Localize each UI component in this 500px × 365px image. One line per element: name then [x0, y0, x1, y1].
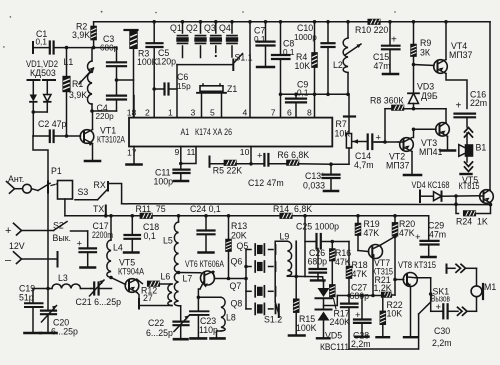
svg-text:100K: 100K	[296, 323, 317, 333]
svg-text:МП37: МП37	[449, 50, 473, 60]
svg-text:51p: 51p	[19, 293, 34, 303]
svg-text:6...25p: 6...25p	[146, 328, 173, 338]
transistor VT5 output	[480, 190, 494, 204]
svg-text:М1: М1	[484, 282, 496, 292]
wire VT7 emitter row	[337, 295, 382, 297]
svg-text:6...25p: 6...25p	[51, 327, 78, 337]
svg-text:L9: L9	[280, 232, 290, 242]
svg-text:Q1: Q1	[170, 23, 182, 33]
svg-text:680p: 680p	[100, 44, 119, 53]
capacitor C15	[373, 20, 400, 74]
svg-text:ТХ: ТХ	[93, 204, 104, 214]
svg-text:VD3: VD3	[417, 82, 434, 92]
inductor L9	[275, 232, 322, 303]
node dot VT4 base tap	[412, 63, 416, 67]
svg-text:11: 11	[187, 147, 196, 157]
svg-text:R10 220: R10 220	[355, 25, 388, 35]
resistor R4	[295, 20, 318, 118]
capacitor C9	[286, 80, 309, 118]
svg-text:VD5: VD5	[325, 331, 342, 341]
wire VD4 node to line204	[455, 196, 457, 204]
svg-text:110p: 110p	[199, 325, 218, 335]
svg-text:0,1: 0,1	[144, 231, 156, 241]
svg-text:КТ3102А: КТ3102А	[97, 135, 125, 145]
svg-text:R24 1K: R24 1K	[456, 217, 488, 227]
node dot C3C4 mid tap	[115, 78, 119, 82]
svg-text:C8: C8	[283, 39, 294, 49]
wire pin7 stub	[280, 94, 282, 117]
capacitor C18	[124, 216, 159, 253]
node dot C18 top	[131, 214, 135, 218]
inductor L7	[174, 273, 192, 321]
svg-text:МП41: МП41	[419, 147, 443, 157]
capacitor C17	[77, 221, 114, 268]
inductor L2 variable	[333, 20, 361, 94]
svg-text:47m: 47m	[374, 61, 391, 71]
IC A1 K174XA26	[129, 118, 332, 147]
transistor VT5 driver	[111, 258, 144, 306]
node dot C13 tap	[329, 162, 333, 166]
diode VD2	[32, 80, 56, 114]
svg-text:R14 6,8K: R14 6,8K	[273, 204, 312, 214]
svg-text:Q5: Q5	[237, 241, 249, 251]
svg-text:Q8: Q8	[231, 299, 243, 309]
resistor R3	[125, 30, 158, 118]
transistor VT6	[179, 259, 225, 289]
svg-text:C22: C22	[148, 318, 164, 328]
node dot VT6 base tap	[177, 271, 181, 275]
svg-text:L5: L5	[163, 236, 173, 246]
capacitor C24	[190, 204, 221, 253]
inductor L3	[46, 273, 91, 290]
capacitor C3	[100, 34, 126, 66]
wire VD5 mid tap	[324, 296, 338, 306]
capacitor C20 variable	[40, 289, 78, 337]
svg-text:+: +	[456, 101, 462, 112]
svg-text:0,1: 0,1	[36, 38, 48, 47]
svg-text:100p: 100p	[154, 177, 174, 187]
wire L1 bottom to C4 bottom	[92, 110, 117, 112]
svg-text:680p: 680p	[350, 291, 370, 301]
wire VT6 emitter	[198, 289, 200, 297]
svg-text:КД503: КД503	[30, 68, 56, 78]
pin 11 stub	[181, 147, 196, 164]
supply plus input	[5, 223, 54, 237]
transistor VT4	[414, 20, 473, 109]
speaker B1	[459, 143, 487, 157]
svg-text:47K: 47K	[352, 269, 368, 279]
resistor R5	[210, 157, 252, 176]
svg-text:3,9K: 3,9K	[72, 30, 90, 40]
wire bottom feedback	[349, 348, 418, 350]
svg-text:10: 10	[240, 147, 250, 157]
svg-text:3,9K: 3,9K	[69, 90, 87, 100]
resistor R21	[374, 275, 397, 297]
svg-text:120p: 120p	[157, 57, 177, 67]
svg-text:2: 2	[145, 108, 150, 118]
wire audio line y204	[122, 203, 491, 206]
svg-text:L4: L4	[113, 243, 123, 253]
svg-text:1: 1	[168, 108, 173, 118]
switch RX TX	[75, 180, 122, 216]
relay coil S3	[58, 181, 89, 200]
svg-text:2200m: 2200m	[92, 230, 113, 240]
svg-text:Q7: Q7	[230, 281, 242, 291]
pin stubs top	[133, 96, 135, 118]
svg-text:A1 К174 ХА 26: A1 К174 ХА 26	[181, 127, 233, 137]
quartz Q3	[204, 20, 222, 57]
svg-text:КВС111: КВС111	[320, 342, 349, 352]
switch SK1	[419, 278, 451, 349]
svg-text:C6: C6	[177, 72, 188, 82]
quartz Q5	[237, 241, 276, 255]
svg-text:18: 18	[127, 108, 137, 118]
svg-text:20K: 20K	[231, 231, 247, 241]
capacitor C14	[354, 133, 398, 171]
svg-text:R8 360К: R8 360К	[370, 96, 404, 106]
svg-text:RX: RX	[94, 180, 106, 190]
supply minus input	[5, 252, 58, 267]
svg-text:Р1: Р1	[51, 166, 62, 176]
svg-text:R7: R7	[336, 119, 347, 129]
capacitor C19	[19, 284, 48, 334]
svg-text:S1.2: S1.2	[264, 315, 282, 325]
svg-text:C24 0,1: C24 0,1	[190, 204, 221, 214]
svg-text:+: +	[391, 35, 397, 46]
svg-text:S3: S3	[78, 187, 89, 197]
svg-text:Q3: Q3	[204, 23, 216, 33]
svg-text:C30: C30	[434, 326, 450, 336]
node dot VD3 bottom	[412, 107, 416, 111]
svg-text:Q2: Q2	[186, 23, 198, 33]
svg-text:C7: C7	[254, 26, 265, 36]
svg-text:2,2m: 2,2m	[432, 338, 452, 348]
svg-text:L6: L6	[161, 272, 171, 282]
svg-text:Q6: Q6	[231, 257, 243, 267]
svg-text:0,1: 0,1	[297, 89, 309, 98]
quartz Q1	[170, 20, 189, 58]
svg-text:Д9Б: Д9Б	[421, 91, 438, 101]
wire crystal bus	[245, 250, 247, 309]
node dot C6 tap	[152, 87, 156, 91]
resistor R15	[289, 275, 317, 336]
svg-text:9: 9	[175, 147, 180, 157]
label VT5 KT815	[459, 175, 480, 191]
pin 10 stub	[240, 147, 251, 164]
svg-text:L7: L7	[183, 274, 193, 284]
pin labels top	[127, 108, 312, 118]
svg-text:R9: R9	[420, 38, 431, 48]
wire pin4 column	[249, 22, 251, 118]
svg-text:4: 4	[243, 108, 248, 118]
svg-text:47m: 47m	[429, 230, 446, 240]
scan specks	[3, 11, 396, 48]
switch S2	[53, 221, 88, 244]
wire pin1 column	[176, 65, 178, 118]
svg-text:+: +	[415, 232, 421, 243]
wire S1.1 common to pin1	[177, 64, 233, 66]
transistor VT3	[414, 123, 456, 158]
svg-text:R5 22K: R5 22K	[213, 166, 242, 176]
node dot C5 bus	[152, 20, 156, 24]
resistor R14	[273, 204, 312, 218]
potentiometer R7	[331, 94, 367, 164]
node dot C25 col top	[303, 214, 307, 218]
svg-text:1,2K: 1,2K	[374, 283, 392, 293]
quartz Q7	[230, 277, 276, 297]
svg-text:7: 7	[271, 108, 276, 118]
svg-text:VD4 КС168: VD4 КС168	[412, 180, 450, 190]
crystal Z1	[197, 84, 237, 118]
connector chevrons mic top	[447, 264, 477, 273]
svg-text:МП37: МП37	[386, 161, 410, 171]
resistor R24	[456, 203, 492, 227]
resistor R20	[393, 214, 416, 280]
svg-text:27: 27	[143, 293, 153, 303]
quartz Q6	[231, 257, 276, 273]
resistor R16	[330, 240, 351, 285]
svg-text:3: 3	[191, 108, 196, 118]
svg-text:L2: L2	[333, 60, 343, 70]
node dot VT6 emitter	[197, 296, 201, 300]
resistor R19	[356, 214, 380, 252]
resistor R22	[377, 294, 403, 338]
svg-text:8: 8	[307, 108, 312, 118]
resistor R6	[277, 150, 331, 165]
relay contact P1	[23, 166, 62, 193]
svg-text:+: +	[436, 302, 442, 313]
diode VD3	[408, 82, 438, 109]
wire C3 to C4	[116, 66, 118, 95]
diode VD4	[412, 180, 480, 202]
svg-text:C21 6...25p: C21 6...25p	[76, 297, 122, 307]
capacitor C29	[415, 216, 446, 257]
inductor L4	[107, 216, 123, 278]
svg-text:240K: 240K	[330, 317, 351, 327]
wire right rail down to VT5	[489, 22, 491, 190]
switch S1.1	[233, 52, 253, 70]
svg-text:C2 47p: C2 47p	[38, 119, 66, 129]
svg-text:L3: L3	[58, 273, 68, 283]
wire R8 to VT3 collector	[445, 109, 447, 122]
node dot L2 bottom	[346, 93, 350, 97]
resistor R11	[136, 204, 429, 218]
wire left rail P1 to L3	[47, 193, 49, 289]
svg-text:4,7m: 4,7m	[354, 160, 374, 170]
transistor VT2	[386, 129, 421, 175]
inductor L6	[139, 272, 172, 309]
quartz Q2	[186, 20, 207, 58]
capacitor C8	[272, 20, 295, 94]
node dot VT5 base	[109, 276, 113, 280]
capacitor C13	[303, 164, 340, 191]
svg-text:+: +	[355, 310, 361, 321]
node dot VD4 VT5 base	[454, 194, 458, 198]
svg-text:+: +	[257, 151, 263, 162]
capacitor C5	[147, 22, 177, 118]
node dot L5 top	[177, 214, 181, 218]
capacitor C30	[431, 302, 458, 348]
node dot VT1 collector	[90, 109, 94, 113]
capacitor C27	[341, 283, 369, 350]
switch S1.2	[264, 302, 282, 325]
node dot pin4 bus	[248, 20, 252, 24]
svg-text:C12 47m: C12 47m	[248, 178, 284, 188]
inductor L8	[198, 297, 235, 338]
resistor R1	[63, 48, 87, 136]
quartz Q8	[231, 299, 276, 315]
svg-text:VT8 КТ315: VT8 КТ315	[398, 260, 436, 270]
svg-text:3К: 3К	[420, 48, 431, 58]
svg-text:47K: 47K	[364, 228, 380, 238]
microphone M1	[471, 268, 496, 311]
svg-text:C10: C10	[297, 23, 313, 33]
capacitor C1	[33, 29, 54, 54]
node dot pin10 wire	[249, 162, 253, 166]
wire VD1 down to P1	[33, 136, 48, 182]
svg-text:47K: 47K	[399, 228, 415, 238]
node dot L4 top	[109, 214, 113, 218]
resistor R13	[226, 214, 247, 280]
wire main row y216	[65, 215, 140, 217]
svg-text:–: –	[5, 255, 12, 267]
svg-text:680p: 680p	[308, 257, 328, 267]
svg-text:10K: 10K	[387, 309, 403, 319]
capacitor C6	[154, 72, 191, 95]
capacitor C10	[294, 20, 335, 96]
svg-text:10K: 10K	[335, 129, 351, 139]
wire bus right of R10	[379, 21, 490, 23]
transistor VT8	[395, 260, 436, 337]
resistor R18	[347, 242, 368, 304]
svg-text:R6 6,8K: R6 6,8K	[277, 150, 309, 160]
svg-text:L1: L1	[64, 57, 74, 67]
wire VT6 collector to R13	[215, 278, 247, 280]
svg-text:0,1: 0,1	[283, 48, 295, 57]
svg-text:КТ815: КТ815	[459, 181, 480, 191]
svg-text:VT6 КТ606А: VT6 КТ606А	[185, 259, 224, 269]
svg-text:6: 6	[287, 108, 292, 118]
node dot TX wire	[104, 214, 108, 218]
svg-text:+: +	[77, 239, 83, 250]
capacitor C2	[33, 119, 81, 142]
svg-text:220p: 220p	[96, 112, 115, 121]
inductor L1 variable	[64, 48, 94, 111]
antenna	[7, 174, 25, 193]
svg-text:1000p: 1000p	[294, 33, 317, 42]
svg-text:R13: R13	[231, 221, 247, 231]
capacitor C23	[190, 297, 218, 338]
node dot R2 bottom	[92, 46, 96, 50]
resistor R9	[411, 20, 431, 93]
label C28	[351, 331, 371, 350]
svg-text:КТ904А: КТ904А	[118, 267, 144, 277]
connector chevrons B1 top	[465, 128, 473, 146]
wire node C1 to R2	[54, 47, 117, 49]
quartz Q4	[219, 20, 238, 57]
svg-text:2,2m: 2,2m	[351, 339, 371, 349]
svg-text:C25 1000p: C25 1000p	[296, 222, 339, 232]
svg-text:5: 5	[210, 108, 215, 118]
wire mid rail y94	[281, 93, 350, 95]
diode VD1	[28, 80, 40, 136]
svg-text:22m: 22m	[470, 98, 487, 108]
wire tap to R3	[117, 79, 134, 81]
resistor R2	[72, 22, 96, 48]
capacitor C11	[154, 162, 190, 187]
transistor VT7	[369, 237, 396, 298]
svg-text:C3: C3	[103, 34, 114, 44]
wire S3 to wire216	[64, 199, 66, 216]
svg-text:Ант.: Ант.	[8, 174, 24, 184]
capacitor C16	[455, 90, 488, 128]
node dot R1 bottom base	[65, 134, 69, 138]
capacitor C26	[308, 248, 328, 280]
svg-text:Z1: Z1	[227, 84, 237, 94]
capacitor C12	[248, 151, 287, 189]
svg-text:Вык.: Вык.	[53, 233, 71, 243]
resistor R12	[141, 281, 170, 303]
label VD1 VD2	[26, 59, 58, 78]
svg-text:17: 17	[127, 148, 137, 158]
pin 9 stub	[175, 147, 181, 164]
resistor R10	[355, 20, 388, 36]
varicap VD5	[316, 277, 350, 352]
svg-text:15p: 15p	[177, 82, 191, 91]
svg-text:Q4: Q4	[219, 23, 231, 33]
node dot pin8 rail	[313, 93, 317, 97]
node dot R1 top	[65, 46, 69, 50]
svg-text:S2: S2	[53, 221, 64, 231]
node dot line204 left R24	[454, 202, 458, 206]
svg-text:+: +	[5, 225, 11, 237]
capacitor C21 variable	[76, 280, 122, 307]
connector chevrons B1 bottom	[461, 156, 473, 174]
svg-text:L8: L8	[226, 313, 236, 323]
svg-text:В1: В1	[476, 143, 487, 153]
svg-text:0,1: 0,1	[254, 35, 266, 44]
node dot VT2 collector base VT3	[412, 128, 416, 132]
resistor R8	[370, 96, 446, 144]
svg-text:10K: 10K	[295, 61, 311, 71]
capacitor C4	[96, 96, 127, 121]
resistor R17	[330, 285, 351, 327]
svg-text:R11 75: R11 75	[136, 204, 166, 214]
wire top supply bus	[94, 21, 369, 23]
capacitor C25	[296, 216, 349, 277]
svg-text:0,033: 0,033	[303, 181, 325, 191]
svg-text:C13*: C13*	[305, 171, 325, 181]
connector chevrons mic bottom	[458, 307, 477, 315]
capacitor C28	[353, 294, 388, 341]
capacitor C22 variable	[146, 316, 189, 340]
capacitor C7	[254, 20, 275, 67]
pin 17 ground	[127, 147, 142, 165]
inductor L5	[163, 216, 179, 273]
svg-text:12V: 12V	[9, 241, 25, 251]
transistor VT1	[80, 111, 125, 161]
